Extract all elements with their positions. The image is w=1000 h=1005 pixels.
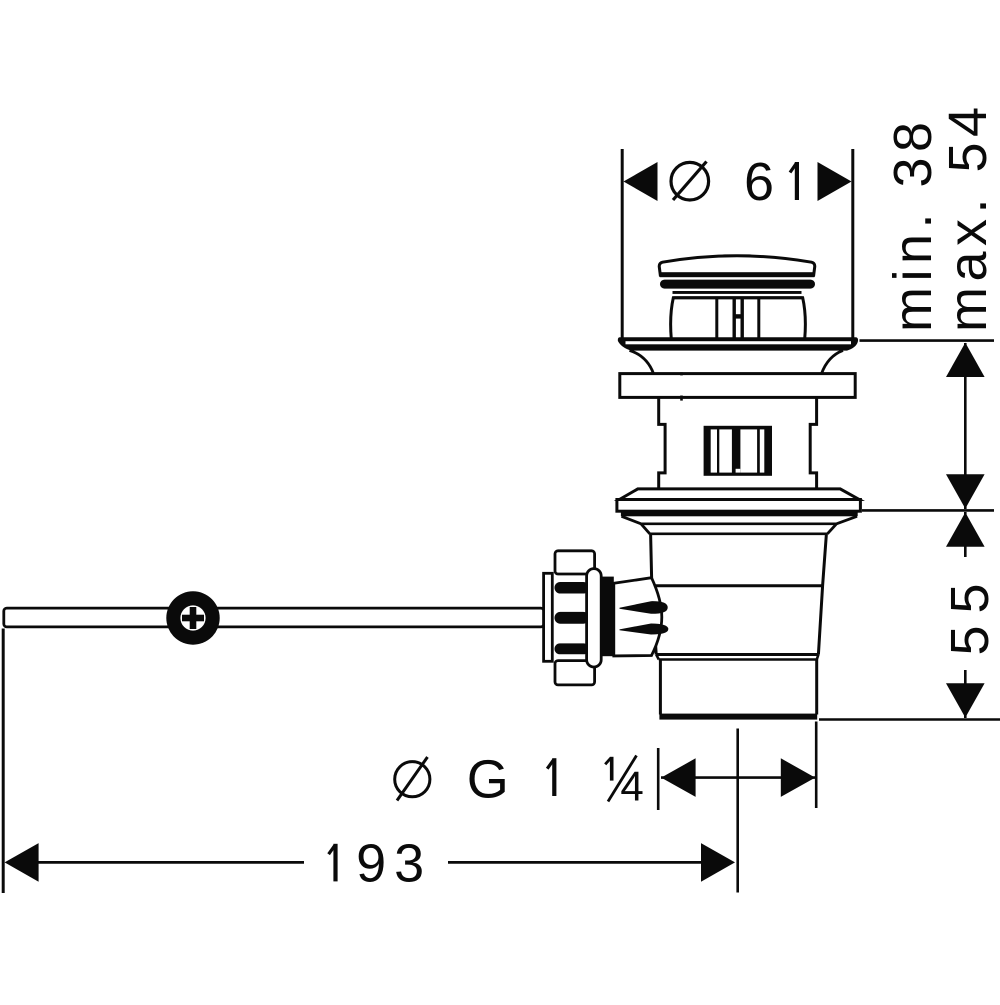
flange 2 lower tier [617, 500, 861, 512]
dim min/max extension line bottom [862, 509, 994, 512]
slot white notch [736, 469, 741, 473]
flange 1 white groove [626, 341, 852, 344]
dim 193 right arrow [701, 843, 735, 882]
pivot knob cross vertical [190, 607, 197, 629]
body step right [817, 655, 819, 660]
svg-text:min. 38: min. 38 [883, 116, 943, 332]
svg-text:4: 4 [620, 762, 643, 809]
nut front capsule [587, 569, 602, 667]
body left profile with step [659, 397, 665, 488]
pop-up cap dome [659, 256, 815, 277]
dim min/max up arrow [946, 343, 985, 377]
fraction numerator 1 (custom) [605, 757, 612, 781]
cap neck line [673, 291, 802, 294]
body ring line y654 [656, 653, 818, 656]
funnel left curve [630, 350, 654, 373]
flange 2 upper tier (chamfered) [619, 489, 859, 500]
pivot knob outer [166, 591, 219, 644]
cone taper left [622, 516, 650, 534]
flange 1 (top rosette, two bands joined at tips) [618, 337, 858, 350]
pivot knob inner white [180, 605, 205, 630]
svg-text:G: G [467, 749, 509, 809]
slot white bar 1 [711, 429, 717, 472]
svg-text:max. 54: max. 54 [938, 101, 998, 332]
dim min/max line [964, 343, 967, 509]
connector cone to body [614, 578, 662, 656]
cap seal ring (black band) [660, 280, 815, 289]
nut rib 3 [555, 643, 590, 654]
hidden edge tick bottom [680, 396, 683, 401]
connector bracket [544, 573, 553, 661]
overflow slot window (black) [704, 426, 772, 476]
cap rod pin bridge [734, 314, 742, 318]
spring prong 1 [620, 601, 668, 614]
flange 2 bottom thick edge [621, 511, 858, 517]
svg-text:9: 9 [356, 834, 386, 894]
hidden edge tick top [680, 372, 683, 375]
digit 1 of 61 (custom) [790, 162, 797, 200]
svg-text:3: 3 [394, 834, 424, 894]
cap body top edge [673, 296, 802, 299]
tailpiece left side [659, 660, 662, 715]
dim G 1 1/4 left extension line [657, 748, 660, 810]
cap slot line 1 [715, 299, 718, 339]
cone taper right [827, 516, 857, 534]
fraction slash [608, 756, 637, 802]
dim 193 extension line left [2, 629, 5, 894]
slot white bar 3 [740, 429, 757, 472]
body ring line y585 [652, 584, 823, 587]
cap dome bottom thick edge [660, 272, 815, 277]
cap slot line 2 [733, 299, 736, 339]
nut bottom tab [555, 661, 595, 685]
nut top tab [555, 551, 595, 574]
dim 55 line upper [964, 512, 967, 557]
dim G 1 1/4 right extension line [815, 722, 818, 809]
dim Ø61 right extension line [851, 149, 854, 338]
pivot knob cross horizontal [182, 615, 204, 622]
slot white bar 4 [760, 429, 765, 472]
upper body right side [818, 534, 826, 655]
text 193 [329, 844, 336, 882]
dim G 1 1/4 line [661, 776, 815, 779]
nut rib 2 [555, 612, 590, 624]
dim G diameter symbol [395, 762, 430, 797]
dim Ø61 left arrow [624, 162, 658, 201]
lever rod [4, 608, 544, 627]
body right profile with step [810, 397, 816, 488]
tailpiece right side [815, 660, 818, 715]
dim 55 down arrow [946, 683, 985, 717]
dim Ø61 right arrow [818, 162, 852, 201]
spring prong 2 [620, 624, 669, 635]
dim 55 line lower [964, 670, 967, 718]
dim 55 up arrow [946, 512, 985, 546]
dim 193 line left segment [37, 861, 304, 864]
svg-text:55: 55 [940, 571, 1000, 655]
mounting body wide rectangle [620, 374, 855, 398]
nut dark band [601, 577, 614, 657]
svg-text:6: 6 [744, 152, 774, 212]
digit 1 of G 1 (custom) [547, 758, 554, 796]
funnel right curve [822, 350, 844, 373]
dim min/max down arrow [946, 474, 985, 508]
dim Ø61 left extension line [621, 149, 624, 338]
dim 193 line right segment [448, 861, 704, 864]
cap body [671, 298, 806, 339]
centerline of tailpiece [736, 729, 739, 893]
upper body left side [651, 534, 657, 655]
dim G 1 1/4 right arrow [781, 758, 815, 797]
body ring line y659 [659, 658, 817, 661]
nut rib 1 [555, 582, 590, 594]
dim Ø61 diameter symbol [671, 162, 709, 200]
dim 55 bottom extension line [819, 718, 1000, 721]
cap slot line 4 [757, 299, 760, 339]
body step left [656, 655, 659, 660]
dim min/max extension line top [860, 339, 995, 342]
dim 193 left arrow [5, 843, 39, 882]
cone ring line 1 [641, 522, 837, 525]
cap slot line 3 [741, 299, 744, 339]
tailpiece bottom thick edge [659, 714, 817, 720]
dim G 1 1/4 left arrow [661, 758, 695, 797]
cone ring line 2 [650, 532, 828, 535]
slot white bar 2 [719, 429, 732, 472]
